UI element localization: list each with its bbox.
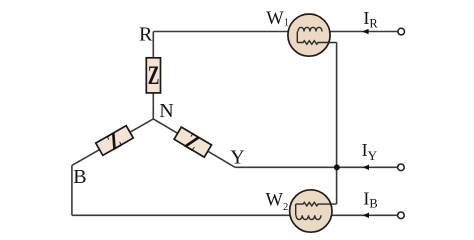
svg-text:N: N xyxy=(159,100,173,122)
svg-text:R: R xyxy=(139,23,153,45)
svg-text:B: B xyxy=(73,166,86,188)
svg-text:Y: Y xyxy=(230,147,244,169)
svg-text:Z: Z xyxy=(148,61,160,90)
